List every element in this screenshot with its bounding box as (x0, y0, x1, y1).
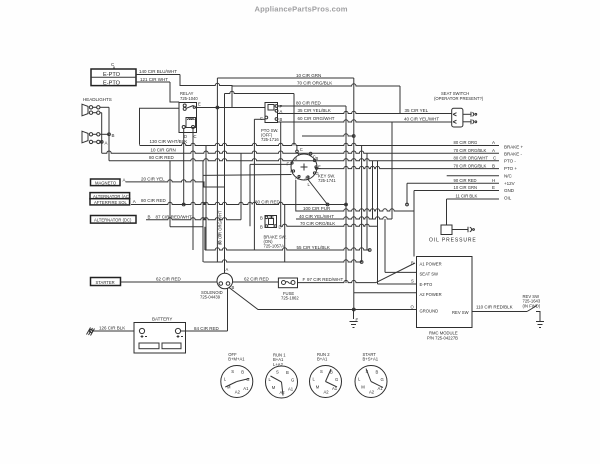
svg-text:B: B (280, 117, 283, 122)
svg-text:E-PTO: E-PTO (420, 282, 433, 287)
svg-text:A: A (123, 177, 126, 182)
svg-text:35 CIR YEL/BLK: 35 CIR YEL/BLK (298, 108, 331, 113)
svg-text:80 CIR ORG: 80 CIR ORG (454, 140, 478, 145)
svg-text:B: B (492, 163, 495, 168)
svg-text:STARTER: STARTER (96, 280, 115, 285)
svg-text:70 CIR ORG/BLK: 70 CIR ORG/BLK (300, 221, 335, 226)
svg-text:M: M (361, 384, 365, 389)
svg-text:62 CIR RED: 62 CIR RED (244, 276, 270, 281)
svg-text:PTO +: PTO + (504, 166, 517, 171)
svg-text:B+S+A1: B+S+A1 (363, 357, 379, 362)
svg-text:10 CIR GRN: 10 CIR GRN (454, 185, 478, 190)
svg-text:725-1716: 725-1716 (261, 137, 279, 142)
svg-text:725-1057A: 725-1057A (264, 244, 285, 249)
svg-text:S: S (320, 369, 323, 374)
svg-text:A2: A2 (295, 176, 301, 181)
svg-text:B: B (286, 370, 289, 375)
svg-text:H: H (492, 178, 495, 183)
svg-text:130 CIR WHT/BLK: 130 CIR WHT/BLK (150, 139, 188, 144)
svg-text:B: B (411, 261, 414, 266)
svg-text:A: A (492, 148, 495, 153)
svg-text:C: C (300, 147, 303, 152)
svg-text:E-PTO: E-PTO (103, 72, 121, 78)
svg-text:(IN FWD): (IN FWD) (523, 303, 541, 308)
svg-text:140 CIR BLU/WHT: 140 CIR BLU/WHT (139, 69, 177, 74)
svg-text:40 CIR YEL/WHT: 40 CIR YEL/WHT (299, 214, 334, 219)
svg-text:80 CIR RED: 80 CIR RED (255, 199, 281, 204)
svg-text:A2: A2 (235, 390, 241, 395)
svg-text:11 CIR BLK: 11 CIR BLK (456, 194, 478, 199)
svg-text:E: E (492, 185, 495, 190)
svg-text:M: M (316, 384, 320, 389)
svg-text:80 CIR RED: 80 CIR RED (149, 155, 175, 160)
svg-text:87 CIR RED/WHT: 87 CIR RED/WHT (156, 214, 193, 219)
svg-text:A2: A2 (369, 390, 375, 395)
svg-text:C: C (194, 134, 197, 139)
svg-text:N/C: N/C (504, 174, 513, 179)
svg-text:S: S (276, 370, 279, 375)
svg-text:70 CIR ORG/BLK: 70 CIR ORG/BLK (297, 81, 332, 86)
svg-text:10 CIR GRN: 10 CIR GRN (296, 73, 321, 78)
svg-text:110 CIR RED/BLK: 110 CIR RED/BLK (476, 305, 513, 310)
svg-text:REV SW: REV SW (452, 310, 469, 315)
svg-text:S: S (295, 156, 298, 161)
svg-text:725-1040: 725-1040 (180, 96, 198, 101)
svg-text:E-PTO: E-PTO (103, 81, 121, 87)
svg-text:84 CIR RED: 84 CIR RED (194, 326, 220, 331)
svg-text:E: E (198, 101, 201, 106)
svg-text:S: S (231, 369, 234, 374)
svg-text:97 CIR RED/WHT: 97 CIR RED/WHT (307, 277, 344, 282)
svg-text:B: B (316, 156, 319, 161)
svg-text:A: A (492, 140, 495, 145)
svg-text:ALTERNATOR (DC): ALTERNATOR (DC) (94, 218, 132, 223)
svg-text:70 CIR ORG/BLK: 70 CIR ORG/BLK (454, 148, 487, 153)
svg-text:G: G (381, 377, 384, 382)
svg-text:725-1741: 725-1741 (318, 178, 336, 183)
svg-text:OIL: OIL (504, 196, 512, 201)
svg-text:10 CIR GRN: 10 CIR GRN (151, 148, 176, 153)
svg-text:20 CIR YEL: 20 CIR YEL (141, 176, 165, 181)
svg-text:P/N 725-04227B: P/N 725-04227B (427, 335, 458, 340)
svg-text:60 CIR ORG/WHT: 60 CIR ORG/WHT (298, 116, 335, 121)
svg-text:80 CIR ORG/WHT: 80 CIR ORG/WHT (218, 210, 223, 245)
svg-text:A: A (226, 267, 229, 272)
svg-text:G: G (335, 377, 338, 382)
svg-text:GROUND: GROUND (420, 309, 439, 314)
svg-text:126 CIR BLK: 126 CIR BLK (99, 326, 125, 331)
svg-text:AFTERFIRE SOL: AFTERFIRE SOL (94, 200, 127, 205)
svg-text:80 CIR ORG/WHT: 80 CIR ORG/WHT (454, 156, 489, 161)
svg-text:S: S (411, 279, 414, 284)
svg-text:C: C (260, 116, 263, 121)
svg-text:+12V: +12V (504, 181, 515, 186)
svg-text:BATTERY: BATTERY (152, 317, 172, 322)
svg-text:B: B (260, 225, 263, 230)
svg-text:100 CIR PUR: 100 CIR PUR (303, 206, 331, 211)
svg-text:B: B (148, 215, 151, 220)
svg-text:B+M+A1: B+M+A1 (228, 357, 245, 362)
svg-text:725-1862: 725-1862 (281, 296, 299, 301)
svg-text:(OPERATOR PRESENT?): (OPERATOR PRESENT?) (434, 96, 484, 101)
svg-text:B: B (112, 133, 115, 138)
svg-text:HEADLIGHTS: HEADLIGHTS (83, 97, 112, 102)
svg-text:BRAKE +: BRAKE + (504, 144, 524, 149)
svg-text:PTO -: PTO - (504, 159, 516, 164)
svg-text:G: G (291, 378, 294, 383)
svg-text:80 CIR RED: 80 CIR RED (141, 198, 167, 203)
svg-text:SEAT SW: SEAT SW (420, 272, 439, 277)
svg-text:A1: A1 (288, 387, 294, 392)
svg-text:B: B (260, 216, 263, 221)
svg-text:80 CIR RED: 80 CIR RED (296, 101, 322, 106)
svg-text:B: B (376, 370, 379, 375)
svg-text:GND: GND (504, 188, 515, 193)
svg-text:B+A1: B+A1 (317, 357, 328, 362)
svg-text:55 CIR YEL/BLK: 55 CIR YEL/BLK (297, 245, 330, 250)
svg-text:A1: A1 (243, 386, 249, 391)
svg-text:OIL PRESSURE: OIL PRESSURE (429, 238, 477, 244)
svg-text:A2: A2 (324, 390, 330, 395)
svg-text:A2 POWER: A2 POWER (420, 292, 442, 297)
svg-text:121 CIR WHT: 121 CIR WHT (140, 77, 168, 82)
svg-text:A: A (290, 169, 293, 174)
svg-text:A1: A1 (305, 176, 311, 181)
svg-text:A: A (105, 140, 108, 145)
svg-text:725-04439: 725-04439 (200, 295, 221, 300)
svg-text:90 CIR RED: 90 CIR RED (454, 178, 477, 183)
svg-text:MAGNETO: MAGNETO (95, 180, 117, 185)
svg-text:F: F (303, 277, 306, 282)
svg-text:M: M (272, 385, 276, 390)
svg-text:62 CIR RED: 62 CIR RED (156, 276, 182, 281)
svg-text:A: A (133, 199, 136, 204)
svg-text:B: B (241, 370, 244, 375)
svg-text:70 CIR ORG/BLK: 70 CIR ORG/BLK (454, 163, 487, 168)
svg-text:AppliancePartsPros.com: AppliancePartsPros.com (255, 4, 348, 13)
svg-text:A1 POWER: A1 POWER (420, 262, 442, 267)
svg-text:35 CIR YEL: 35 CIR YEL (405, 108, 429, 113)
svg-text:40 CIR YEL/WHT: 40 CIR YEL/WHT (404, 116, 439, 121)
svg-text:BRAKE -: BRAKE - (504, 152, 523, 157)
